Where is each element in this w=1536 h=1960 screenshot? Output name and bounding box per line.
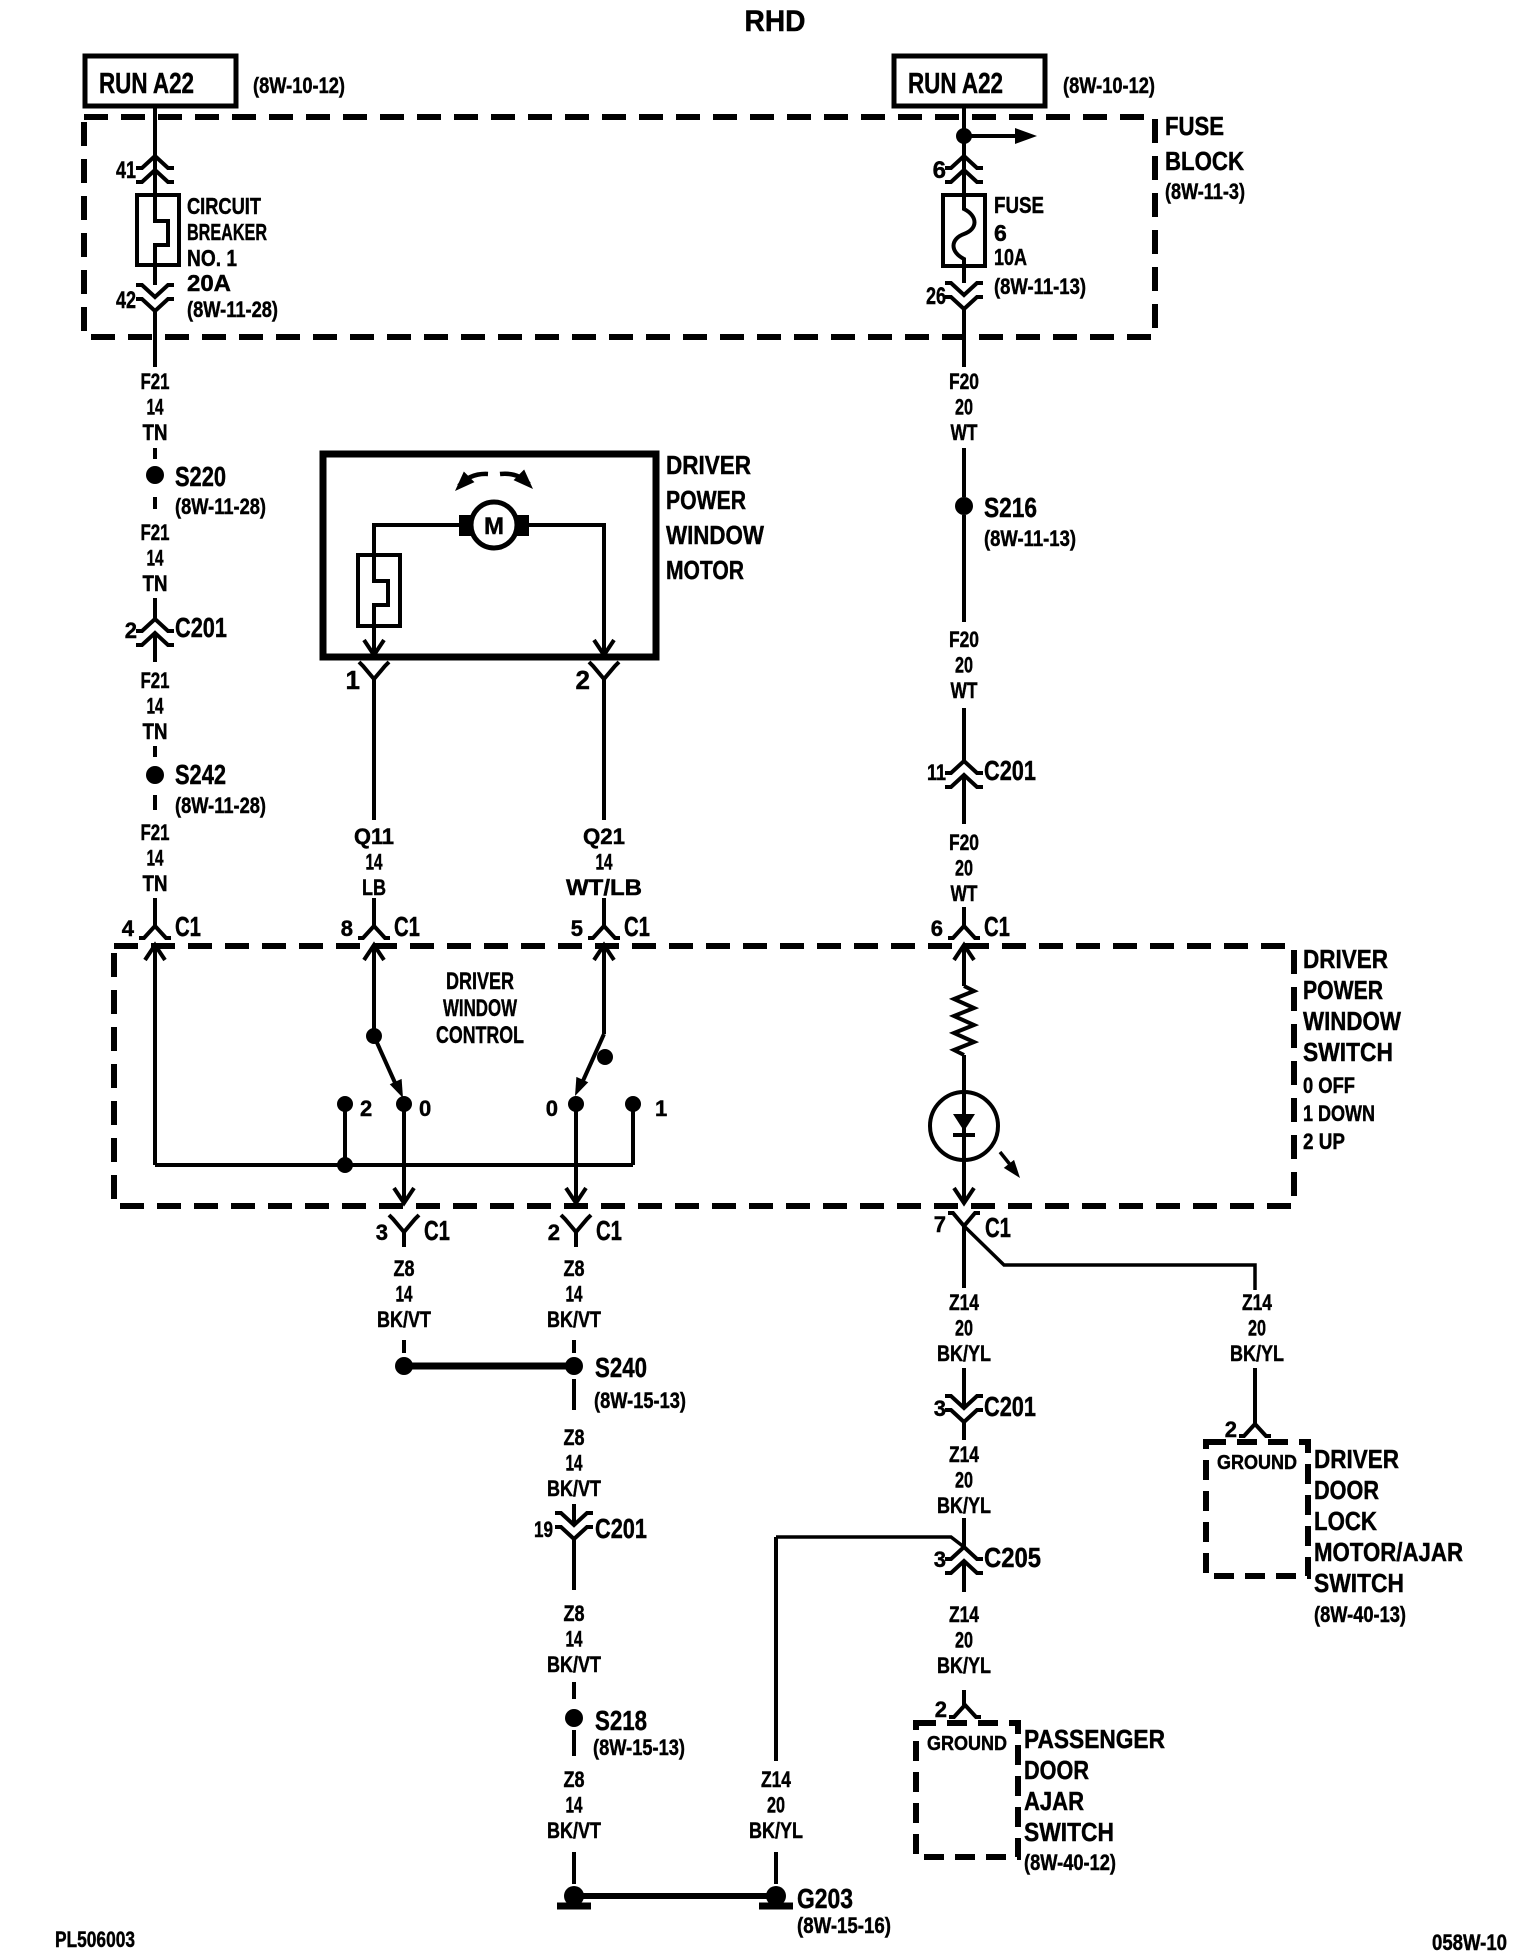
- connector C1 pin 4: [122, 907, 201, 942]
- svg-text:Z8: Z8: [564, 1601, 585, 1626]
- wire into C201 pin 19: [572, 1504, 576, 1525]
- wire Z14 riser to G203: [774, 1537, 778, 1761]
- motor connector pin 1: [346, 662, 389, 695]
- wire below C205: [962, 1561, 966, 1592]
- fuse 6 10A: [943, 192, 1086, 299]
- svg-text:AJAR: AJAR: [1024, 1786, 1084, 1816]
- bus wire in switch: [155, 1163, 633, 1167]
- svg-text:Z8: Z8: [564, 1425, 585, 1450]
- svg-text:14: 14: [396, 1282, 414, 1307]
- svg-text:RUN A22: RUN A22: [99, 68, 194, 100]
- wire pin 6 into switch: [954, 945, 974, 960]
- wire breaker to motor pin 1: [372, 626, 376, 655]
- svg-text:C205: C205: [984, 1542, 1041, 1573]
- splice S242: [146, 759, 226, 790]
- svg-text:C1: C1: [394, 911, 420, 942]
- power feed box RUN A22 (left): [85, 56, 345, 106]
- connector C201 pin 11: [927, 755, 1036, 787]
- svg-text:Z14: Z14: [949, 1602, 980, 1627]
- left switch contact 0: [396, 1096, 431, 1121]
- splice S216: [955, 492, 1037, 523]
- svg-text:14: 14: [566, 1451, 584, 1476]
- svg-text:BK/YL: BK/YL: [937, 1493, 991, 1518]
- connector pin 2 driver door lock: [1225, 1417, 1271, 1442]
- svg-text:20: 20: [955, 1316, 973, 1341]
- svg-text:S240: S240: [595, 1352, 647, 1383]
- svg-text:14: 14: [596, 850, 614, 875]
- connector C201 pin 3: [934, 1391, 1036, 1422]
- rotation arrows: [450, 470, 539, 497]
- ground G203 left terminal: [557, 1886, 591, 1906]
- driver power window motor box: [323, 450, 764, 657]
- svg-text:DRIVER: DRIVER: [1303, 944, 1388, 974]
- svg-text:1: 1: [346, 665, 360, 695]
- svg-text:(8W-11-13): (8W-11-13): [994, 274, 1086, 299]
- svg-text:41: 41: [116, 157, 136, 184]
- svg-text:C1: C1: [424, 1215, 450, 1246]
- wire resistor to LED: [962, 1055, 966, 1092]
- wire into pin 8: [372, 898, 376, 908]
- svg-text:14: 14: [147, 694, 165, 719]
- wire right contact 0 down to pin 2: [574, 1104, 578, 1203]
- svg-text:2: 2: [935, 1697, 947, 1722]
- motor M1: [459, 502, 529, 548]
- right switch blade: [569, 1034, 613, 1099]
- ground bus wire: [574, 1893, 776, 1899]
- svg-text:Z14: Z14: [1242, 1290, 1273, 1315]
- svg-text:BK/YL: BK/YL: [937, 1653, 991, 1678]
- label driver window control: [436, 968, 524, 1049]
- ground G203 right terminal: [759, 1883, 891, 1938]
- wire fuse to F20 label: [962, 266, 966, 283]
- svg-text:MOTOR: MOTOR: [666, 555, 744, 585]
- svg-text:7: 7: [934, 1212, 946, 1237]
- wire into C201 pin 11: [962, 708, 966, 761]
- svg-text:BK/YL: BK/YL: [749, 1818, 803, 1843]
- svg-text:F21: F21: [141, 520, 170, 545]
- svg-text:S242: S242: [175, 759, 226, 790]
- connector pin 6 fuse block: [933, 156, 983, 184]
- svg-text:LOCK: LOCK: [1314, 1506, 1377, 1536]
- svg-text:5: 5: [571, 916, 583, 941]
- svg-text:LB: LB: [362, 875, 386, 900]
- svg-text:BK/VT: BK/VT: [547, 1476, 601, 1501]
- svg-text:C201: C201: [984, 755, 1036, 786]
- wire Q21: [602, 694, 606, 820]
- svg-text:20: 20: [955, 856, 973, 881]
- wire RUN A22 right to fuse: [962, 107, 966, 195]
- svg-text:SWITCH: SWITCH: [1303, 1037, 1393, 1067]
- splice S240 tie line: [404, 1363, 574, 1370]
- fuse block dashed box: [84, 111, 1245, 337]
- svg-text:WINDOW: WINDOW: [1303, 1006, 1401, 1036]
- svg-text:Q11: Q11: [354, 824, 394, 849]
- svg-text:F20: F20: [949, 627, 979, 652]
- wire segment: [153, 497, 157, 509]
- svg-text:RUN A22: RUN A22: [908, 68, 1003, 100]
- junction node with arrow: [956, 128, 1037, 144]
- svg-text:3: 3: [376, 1220, 388, 1245]
- svg-text:(8W-11-28): (8W-11-28): [175, 494, 266, 519]
- svg-text:GROUND: GROUND: [1217, 1452, 1297, 1474]
- svg-text:(8W-11-13): (8W-11-13): [984, 526, 1076, 551]
- svg-text:(8W-40-13): (8W-40-13): [1314, 1602, 1406, 1627]
- wire into passenger ground pin 2: [962, 1690, 966, 1705]
- svg-text:C201: C201: [984, 1391, 1036, 1422]
- svg-text:FUSE: FUSE: [1165, 111, 1224, 141]
- svg-text:DRIVER: DRIVER: [666, 450, 751, 480]
- wire segment: [153, 746, 157, 757]
- splice S220: [146, 461, 226, 492]
- wire left contact 0 down to pin 3: [402, 1104, 406, 1203]
- svg-text:M: M: [484, 513, 504, 540]
- connector pin 2 passenger door ajar switch: [935, 1697, 981, 1722]
- svg-text:8: 8: [341, 916, 353, 941]
- connector C201 pin 19: [534, 1513, 647, 1544]
- svg-text:BLOCK: BLOCK: [1165, 146, 1244, 176]
- svg-text:F21: F21: [141, 820, 170, 845]
- wire branch pin 7 to driver door lock ground: [964, 1226, 1255, 1290]
- right switch contact 1: [625, 1096, 667, 1121]
- connector pin 26: [926, 283, 983, 310]
- svg-text:4: 4: [122, 916, 135, 941]
- svg-text:POWER: POWER: [1303, 975, 1383, 1005]
- wire below C201 pin 19: [572, 1539, 576, 1590]
- svg-text:14: 14: [566, 1793, 584, 1818]
- svg-text:6: 6: [933, 157, 946, 184]
- svg-text:058W-10: 058W-10: [1432, 1930, 1507, 1955]
- wire segment: [402, 1340, 406, 1353]
- svg-text:(8W-10-12): (8W-10-12): [1063, 73, 1155, 98]
- svg-text:C201: C201: [595, 1513, 647, 1544]
- svg-text:PL506003: PL506003: [55, 1927, 135, 1952]
- svg-text:DOOR: DOOR: [1314, 1475, 1379, 1505]
- connector C1 pin 5: [571, 907, 650, 942]
- svg-text:3: 3: [934, 1396, 946, 1421]
- connector C1 pin 7: [934, 1212, 1011, 1288]
- svg-text:(8W-15-13): (8W-15-13): [593, 1735, 685, 1760]
- svg-text:42: 42: [116, 287, 136, 314]
- wire into C205 pin 3: [962, 1518, 966, 1547]
- wire below C201: [153, 633, 157, 662]
- svg-text:TN: TN: [143, 719, 168, 744]
- svg-text:(8W-10-12): (8W-10-12): [253, 73, 345, 98]
- wire below C201 pin 3: [962, 1422, 966, 1440]
- driver door lock motor/ajar switch ground box: [1206, 1442, 1463, 1627]
- svg-text:SWITCH: SWITCH: [1024, 1817, 1114, 1847]
- svg-text:MOTOR/AJAR: MOTOR/AJAR: [1314, 1537, 1463, 1567]
- svg-text:10A: 10A: [994, 244, 1027, 270]
- connector C205 pin 3: [934, 1542, 1041, 1573]
- svg-text:F20: F20: [949, 830, 979, 855]
- wire Q11: [372, 694, 376, 820]
- svg-text:Z14: Z14: [949, 1290, 980, 1315]
- LED arrow: [1000, 1152, 1025, 1182]
- svg-text:C1: C1: [984, 911, 1010, 942]
- wire segment to ground: [774, 1852, 778, 1884]
- splice S218: [565, 1705, 647, 1736]
- svg-text:20: 20: [955, 1468, 973, 1493]
- motor connector pin 2: [576, 662, 619, 695]
- svg-text:2: 2: [1225, 1417, 1237, 1442]
- bus junction node: [337, 1157, 353, 1173]
- svg-text:(8W-15-13): (8W-15-13): [594, 1388, 686, 1413]
- svg-text:FUSE: FUSE: [994, 192, 1044, 218]
- svg-text:20: 20: [767, 1793, 785, 1818]
- svg-text:Q21: Q21: [583, 824, 625, 849]
- svg-text:2 UP: 2 UP: [1303, 1129, 1345, 1154]
- svg-text:C201: C201: [175, 612, 227, 643]
- wire pin 4 into switch: [145, 945, 165, 960]
- svg-text:20A: 20A: [187, 270, 231, 296]
- svg-text:G203: G203: [797, 1883, 853, 1914]
- svg-text:14: 14: [566, 1627, 584, 1652]
- connector C201 pin 2: [125, 612, 227, 645]
- LED indicator lamp: [930, 1092, 998, 1203]
- wire below S218: [572, 1730, 576, 1756]
- svg-text:Z8: Z8: [564, 1767, 585, 1792]
- svg-text:3: 3: [934, 1547, 946, 1572]
- svg-text:2: 2: [125, 618, 137, 643]
- svg-text:BK/YL: BK/YL: [937, 1341, 991, 1366]
- wire segment: [572, 1340, 576, 1353]
- svg-text:14: 14: [147, 846, 165, 871]
- svg-text:1: 1: [655, 1096, 667, 1121]
- svg-text:F20: F20: [949, 369, 979, 394]
- wire segment: [572, 1682, 576, 1699]
- connector C1 pin 6: [931, 907, 1010, 942]
- svg-text:DRIVER: DRIVER: [1314, 1444, 1399, 1474]
- svg-text:26: 26: [926, 283, 946, 310]
- svg-text:TN: TN: [143, 571, 168, 596]
- svg-text:14: 14: [366, 850, 384, 875]
- svg-text:Z8: Z8: [564, 1256, 585, 1281]
- svg-text:S220: S220: [175, 461, 226, 492]
- wire pin 5 into right switch: [594, 945, 614, 960]
- svg-text:S218: S218: [595, 1705, 647, 1736]
- svg-text:BK/VT: BK/VT: [547, 1307, 601, 1332]
- connector pin 42: [116, 285, 174, 314]
- svg-text:0: 0: [419, 1096, 431, 1121]
- svg-text:0: 0: [546, 1096, 558, 1121]
- svg-text:20: 20: [955, 653, 973, 678]
- wire into pin 4: [153, 898, 157, 908]
- right switch contact 0: [546, 1096, 584, 1121]
- svg-text:20: 20: [955, 1628, 973, 1653]
- wire into pin 5: [602, 898, 606, 908]
- wire RUN A22 left to circuit breaker: [153, 107, 157, 195]
- svg-text:F21: F21: [141, 668, 170, 693]
- svg-text:Z8: Z8: [394, 1256, 415, 1281]
- svg-text:BK/VT: BK/VT: [547, 1818, 601, 1843]
- svg-text:20: 20: [1248, 1316, 1266, 1341]
- svg-text:0 OFF: 0 OFF: [1303, 1073, 1355, 1098]
- svg-text:6: 6: [994, 220, 1007, 246]
- svg-text:BK/VT: BK/VT: [547, 1652, 601, 1677]
- driver power window switch dashed box: [114, 944, 1401, 1206]
- svg-text:1 DOWN: 1 DOWN: [1303, 1101, 1375, 1126]
- circuit breaker no.1 20A: [137, 193, 278, 322]
- svg-text:TN: TN: [143, 420, 168, 445]
- wire motor to internal breaker: [374, 525, 459, 555]
- svg-text:F21: F21: [141, 369, 170, 394]
- wire below C201 pin 11: [962, 775, 966, 824]
- wire segment: [962, 448, 966, 497]
- wire branch from G203 riser: [776, 1537, 964, 1547]
- svg-text:(8W-11-3): (8W-11-3): [1165, 179, 1245, 204]
- power feed box RUN A22 (right): [894, 56, 1155, 106]
- svg-text:BREAKER: BREAKER: [187, 219, 267, 245]
- svg-text:20: 20: [955, 395, 973, 420]
- wire motor to pin 2: [529, 525, 604, 655]
- svg-text:C1: C1: [985, 1212, 1011, 1243]
- svg-text:CIRCUIT: CIRCUIT: [187, 193, 261, 219]
- svg-text:C1: C1: [624, 911, 650, 942]
- svg-text:CONTROL: CONTROL: [436, 1022, 524, 1049]
- svg-text:2: 2: [576, 665, 590, 695]
- svg-text:GROUND: GROUND: [927, 1733, 1007, 1755]
- svg-text:DOOR: DOOR: [1024, 1755, 1089, 1785]
- svg-text:RHD: RHD: [745, 5, 806, 38]
- svg-text:Z14: Z14: [949, 1442, 980, 1467]
- splice S240 node left: [395, 1357, 413, 1375]
- svg-text:19: 19: [534, 1517, 553, 1542]
- svg-text:(8W-40-12): (8W-40-12): [1024, 1850, 1116, 1875]
- svg-text:6: 6: [931, 916, 943, 941]
- left switch blade: [366, 1028, 409, 1101]
- splice S240: [565, 1352, 647, 1383]
- wire to driver ground pin 2: [1253, 1368, 1257, 1424]
- connector C1 pin 8: [341, 907, 420, 942]
- svg-text:BK/YL: BK/YL: [1230, 1341, 1284, 1366]
- wire below S240: [572, 1379, 576, 1410]
- svg-text:WT: WT: [951, 678, 978, 703]
- svg-text:2: 2: [548, 1220, 560, 1245]
- wire into C201 pin 3: [962, 1368, 966, 1408]
- svg-text:WINDOW: WINDOW: [443, 995, 517, 1022]
- svg-text:Z14: Z14: [761, 1767, 792, 1792]
- wire segment to ground: [572, 1852, 576, 1884]
- svg-text:11: 11: [927, 760, 946, 785]
- svg-text:14: 14: [566, 1282, 584, 1307]
- svg-text:TN: TN: [143, 871, 168, 896]
- svg-text:C1: C1: [175, 911, 201, 942]
- svg-text:NO. 1: NO. 1: [187, 245, 237, 271]
- svg-text:(8W-11-28): (8W-11-28): [187, 297, 278, 322]
- wire into pin 6: [962, 908, 966, 909]
- svg-text:14: 14: [147, 395, 165, 420]
- left switch contact 2: [337, 1096, 372, 1121]
- svg-text:PASSENGER: PASSENGER: [1024, 1724, 1165, 1754]
- wire contact 1 to bus: [631, 1104, 635, 1165]
- svg-text:WT/LB: WT/LB: [566, 875, 642, 900]
- svg-text:WT: WT: [951, 420, 978, 445]
- wire pin 8 into left switch: [364, 945, 384, 960]
- svg-text:WT: WT: [951, 881, 978, 906]
- svg-text:BK/VT: BK/VT: [377, 1307, 431, 1332]
- wire contact 2 to bus: [343, 1104, 347, 1165]
- wire segment: [153, 448, 157, 459]
- wire LED to pin 7: [954, 1188, 974, 1203]
- wire segment: [153, 795, 157, 810]
- svg-text:(8W-11-28): (8W-11-28): [175, 793, 266, 818]
- svg-text:C1: C1: [596, 1215, 622, 1246]
- svg-text:(8W-15-16): (8W-15-16): [797, 1913, 891, 1938]
- wire into C201: [153, 598, 157, 619]
- connector C1 pin 2: [548, 1215, 622, 1247]
- resistor R1: [954, 986, 974, 1055]
- svg-text:S216: S216: [984, 492, 1037, 523]
- connector C1 pin 3: [376, 1215, 450, 1247]
- svg-text:DRIVER: DRIVER: [446, 968, 514, 995]
- svg-text:2: 2: [360, 1096, 372, 1121]
- motor internal circuit breaker: [358, 555, 400, 626]
- passenger door ajar switch ground box: [916, 1723, 1165, 1875]
- svg-text:SWITCH: SWITCH: [1314, 1568, 1404, 1598]
- svg-text:14: 14: [147, 546, 165, 571]
- connector pin 41: [116, 156, 174, 184]
- wire circuit breaker to F21 label: [153, 265, 157, 285]
- svg-text:WINDOW: WINDOW: [666, 520, 764, 550]
- svg-text:POWER: POWER: [666, 485, 746, 515]
- wire below S216: [962, 515, 966, 622]
